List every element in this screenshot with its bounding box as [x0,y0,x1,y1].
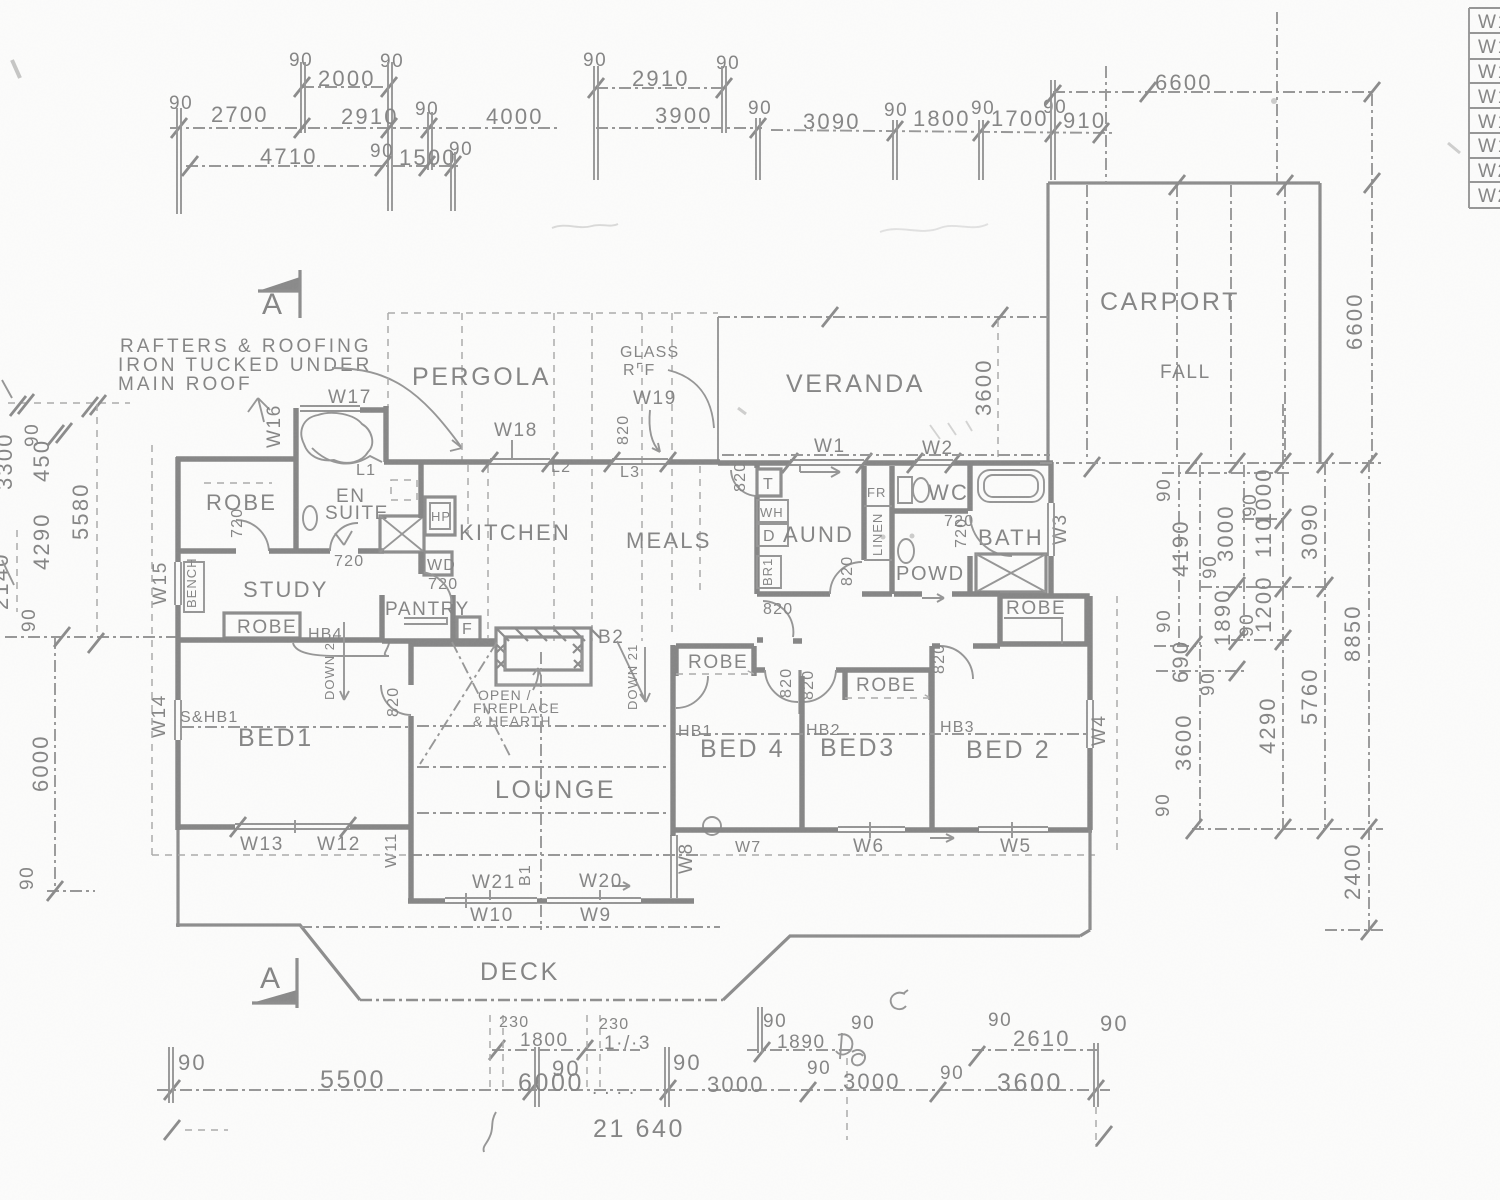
dimension 3600 vertical (veranda) [971,320,998,460]
study robe box [224,613,300,638]
powder wc [898,539,914,563]
stair down 21 [617,641,650,710]
north wall robe/ensuite [176,456,298,461]
bed1 south wall with windows W13 W12 [176,817,411,837]
right dim labels column 2 [1153,575,1365,900]
veranda edge line [718,307,1048,462]
double door arcs bed4 bed3 [754,668,845,714]
hall walls [757,640,802,641]
linen fridge column [864,466,892,594]
lounge east wall (bed4 west) [670,645,675,830]
kitchen wall lower [418,552,423,574]
note rafters and roofing [118,336,462,451]
robe bed3 box [845,670,931,700]
west wall with windows W15 W14 [175,457,181,927]
ensuite wc [303,506,317,530]
east wall of bath with window W3 [1048,462,1054,596]
F box [457,617,480,641]
kitchen hotplate bench [425,497,455,535]
kitchen WD box [424,552,458,593]
pantry door arc [421,572,452,604]
carport corner tick [1084,457,1100,477]
note glass roof [620,344,714,428]
door arrow on W1 [800,466,840,477]
scribble D [836,1033,852,1059]
scribble C [891,990,908,1009]
powd door arrows [922,594,944,602]
east wall with window W4 [1087,596,1093,830]
ensuite vanity [391,480,417,500]
door circle O [703,817,721,835]
lintel labels L1 L2 L3 [356,459,640,481]
bed4 door arc [676,676,708,708]
lounge corner window W8 [671,830,694,901]
robe bed4 box [676,646,754,676]
room label EN SUITE [325,486,389,524]
dimension group top-right row (3090 1800 1700 910) [771,80,1114,180]
ensuite shower [380,516,424,552]
note open fireplace and hearth [473,668,560,729]
pergola dashed outline [388,313,718,641]
section marker A (top) [258,270,300,321]
robe ensuite room [204,462,296,552]
bath room [953,470,1044,594]
carport roof fall lines [1087,175,1293,460]
dimension group top-left row1 (2000) [289,50,404,211]
wc room [894,463,974,530]
ensuite nook walls with window W17 [296,406,386,462]
bottom dim main line [157,1080,1110,1102]
dimension 6600 top (carport width) [1053,70,1380,102]
squiggle under 5500 [484,1112,496,1152]
lounge south wall with windows [408,882,672,908]
kitchen north wall with windows W18 W19 [384,452,720,472]
window label W19 [633,388,677,452]
chimney projection dashed diagonals [420,642,510,764]
carport grid lines above [1106,12,1277,183]
bedrooms south wall with windows W6 W5 [673,822,1092,842]
laundry T box [757,469,781,496]
lounge west wall lower [408,830,413,903]
spa bath in nook [301,413,382,464]
robe door arc 720 [229,508,269,551]
north wall east section with windows W1 W2 [718,453,1053,473]
laundry WH box [757,500,788,522]
laundry BR1 box [757,556,781,588]
deck outline [176,830,1090,1000]
laundry west wall with door 820 [731,462,757,594]
bed2 west wall and door 820 [931,644,1000,830]
meals south wall [453,638,497,643]
ensuite/kitchen wall [418,462,423,518]
bed3/bed4 divider wall [799,676,804,830]
bottom dim labels row 90s [178,1010,1129,1084]
hall door arc 820 (bed4 hall) [763,601,793,637]
dimension group top-middle (2910 3900) [583,50,772,180]
headboard dash line bed1 [182,726,408,728]
window label W18 [494,420,538,458]
kitchen bench dashed [467,465,469,535]
study south wall [176,637,382,642]
study bench [184,557,204,612]
fireplace with hearth [496,628,600,685]
hall south wall segments [894,591,1000,596]
window schedule table (cut off at right edge) [1469,8,1500,208]
ensuite door 720 [330,523,384,570]
shower main bath [976,554,1046,592]
headboard dash line bedrooms [676,733,1088,735]
bottom dim sub line [489,1040,1097,1066]
right dim block: carport bottom line [1040,453,1383,473]
lounge north wall [411,641,497,646]
section marker A (bottom) [252,958,297,1008]
left dimension block lines and ticks [2,380,178,901]
left dimension block labels [0,423,93,890]
lounge module dash lines [410,652,700,930]
stair bracket below study wall [293,622,389,700]
eave dashed lines [152,445,1117,855]
laundry D box [757,524,788,546]
right dim labels column 1 [1154,467,1322,579]
dimension group top-left row2 (2700 2910 4000) [169,93,560,214]
spiral scribble [852,1050,865,1065]
carport outline [1048,183,1320,462]
laundry south wall with door [757,556,892,594]
veranda floor edge dash [722,454,1050,456]
bottom dim verticals [164,1007,1112,1147]
robe bed2 box [1000,596,1087,644]
bed1 east wall and door 820 [381,641,411,830]
right dim block horizontal lines [1154,509,1383,940]
scan smudges [12,60,1460,540]
dimension 6600 vertical (carport) [1342,94,1380,462]
dimension group top-left row3 (4710 1500) [182,139,473,211]
pantry [382,595,470,641]
wall robe/study divider [178,548,330,553]
right dim block vertical lines [1179,404,1369,930]
